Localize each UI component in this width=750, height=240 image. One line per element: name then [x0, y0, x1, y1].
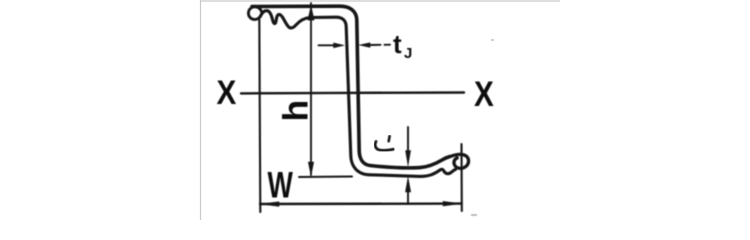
arrowhead width left [261, 202, 279, 207]
arrowhead h bottom [308, 162, 313, 176]
Z-section right end curl (bottom flange lip) [450, 154, 469, 168]
X-X axis line [241, 91, 464, 94]
Z-section outer contour: top flange top face, web right face, bottom flange top face [252, 6, 450, 168]
svg-text:t: t [393, 29, 402, 59]
svg-text:J: J [404, 45, 412, 62]
Z-section left end curl (top flange lip) [248, 7, 262, 20]
svg-text:W: W [268, 164, 294, 205]
arrowhead width right [443, 201, 461, 206]
extension line left (from top lip down to width dimension) [259, 19, 260, 212]
arrowhead h top [308, 7, 314, 21]
svg-text:X: X [217, 73, 237, 111]
dimension t1 right arrow (dashed shaft) [360, 43, 371, 48]
extension line right (from bottom lip down to width dimension) [460, 144, 462, 211]
svg-text:h: h [276, 100, 316, 122]
svg-text:X: X [474, 75, 494, 114]
h reference line at bottom face level [299, 176, 352, 179]
Z-section inner contour: top flange bottom face with hand-drawn wave, web left face, bottom flange bottom face with wave [260, 11, 455, 177]
scan speck upper right [491, 39, 494, 41]
table cell border: faint top line [201, 0, 560, 2]
label t (rotated, drawn as path: horizontal stem with hook at left, crossbar tick above) [375, 142, 393, 151]
scan speck near bottom right [471, 214, 477, 216]
table cell border: faint vertical line [200, 0, 202, 220]
dimension t upper arrow [407, 127, 409, 152]
dimension t lower arrow [405, 178, 410, 193]
dimension t1 left arrow [319, 44, 337, 46]
width dimension line W [260, 202, 462, 205]
dimension line h (vertical) [310, 3, 312, 175]
